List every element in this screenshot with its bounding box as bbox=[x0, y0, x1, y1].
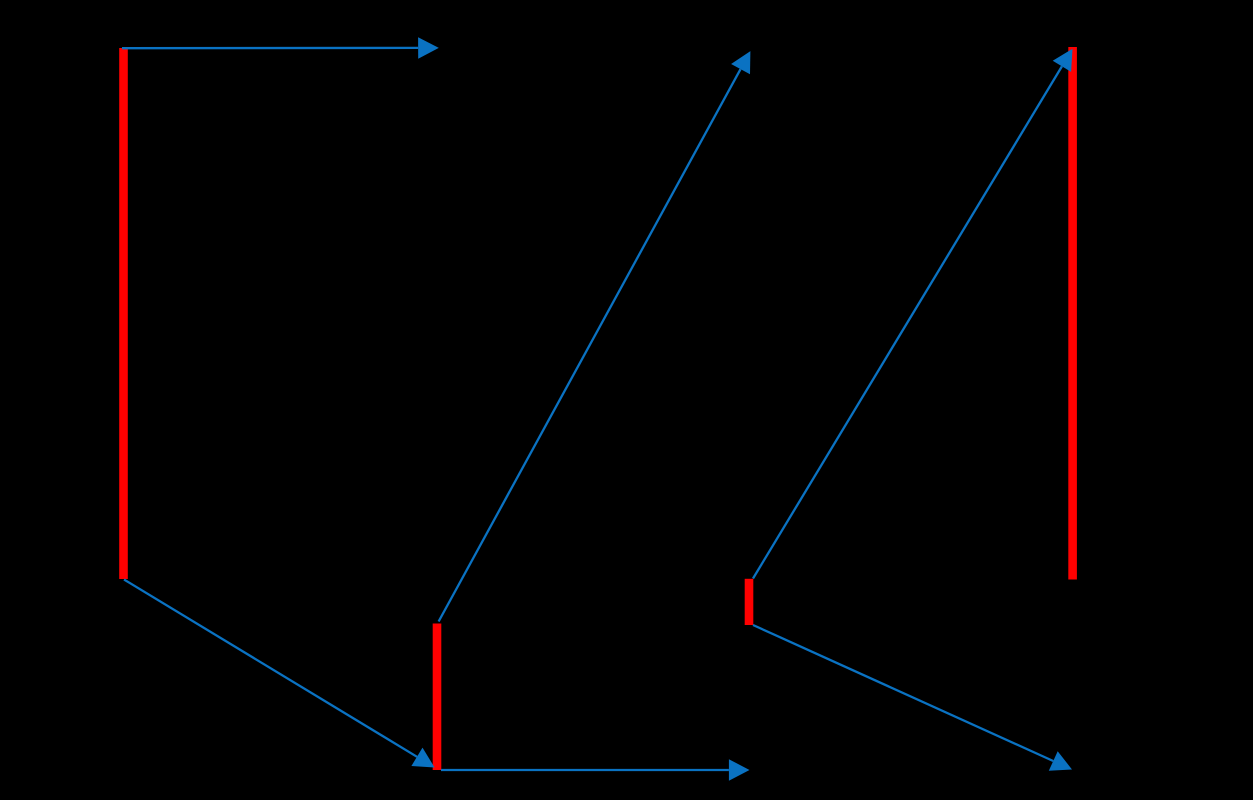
timeline bar 4 (red, right) bbox=[1068, 47, 1077, 580]
arrow 1: bar1 top to the right (horizontal) bbox=[122, 37, 439, 59]
arrow 2: bar1 bottom down-right to bar2 bottom bbox=[124, 580, 435, 768]
timeline bar 3 (red, short middle-right) bbox=[745, 579, 754, 625]
timeline bar 2 (red, lower middle-left) bbox=[433, 624, 442, 771]
timeline bar 1 (red, left) bbox=[119, 48, 128, 579]
arrow 6: bar3 top up-right to bar4 top bbox=[753, 49, 1073, 579]
arrow 5: bar3 bottom down-right to bottom right bbox=[753, 625, 1072, 771]
arrow 3: bar2 bottom to the right (horizontal) bbox=[441, 759, 750, 781]
arrow 4: bar2 top up-right to above bar3 bbox=[439, 51, 751, 621]
